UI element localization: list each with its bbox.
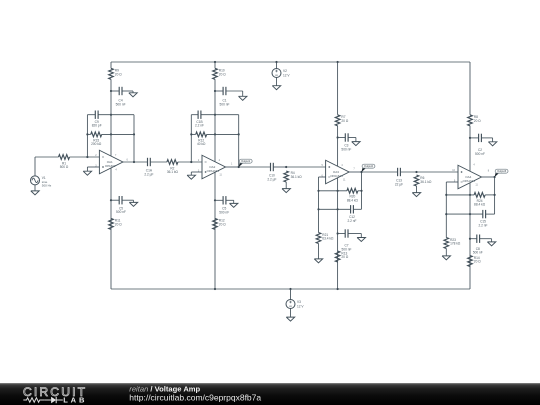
wire: col1 R9 to C4 node [110,79,112,91]
svg-text:36.1 kΩ: 36.1 kΩ [291,175,303,179]
junction: col1/C9 branch [110,114,112,116]
logo resistor zigzag [23,398,44,402]
ground (C2) [488,142,496,146]
resistor R10 [213,68,218,79]
resistor R13 [335,251,340,262]
wire: R22 node to OA4 +in [417,171,459,173]
junction: OA2 output node [238,166,240,168]
wire: C2 stub [470,137,479,139]
junction: fb3 right/R20 [360,190,362,192]
ground (C3) [352,142,360,146]
wire: OA4 -in stub [446,181,458,183]
resistor R9 [109,68,114,79]
wire: col4 down to OA4 V+ [469,138,471,171]
ground (OA2 +in) [187,175,195,179]
svg-text:500 nF: 500 nF [219,210,229,214]
wire: col4 R8 to C2 node [469,126,471,138]
voltage source V1 [31,176,40,185]
wire: fb3 cap branch [319,208,351,210]
wire: C3 ground stem [355,138,357,142]
capacitor C12 [350,205,352,213]
ground (OA1 +in) [83,171,91,175]
wire: C5 stub [111,199,119,201]
capacitor C7 [344,229,346,237]
svg-text:500 nF: 500 nF [116,210,126,214]
junction: col2/C1B branch [214,114,216,116]
wire: col3 R7 to C3 node [337,126,339,138]
resistor R24 [474,193,485,198]
capacitor C3 [344,133,346,141]
junction: col1/C4 [110,90,112,92]
wire: C4 ground stem [132,91,134,93]
wire: C8 stub [470,238,477,240]
capacitor C8 [476,235,478,243]
junction: col3/bottom rail [337,288,339,290]
svg-text:63.4 kΩ: 63.4 kΩ [322,237,334,241]
wire: node to C13 [362,171,398,173]
wire: fb2 res branch right [207,133,239,135]
svg-text:OPA1644: OPA1644 [330,174,343,178]
wire: V2 ground stem [276,78,278,86]
wire: OA2 out to node [226,166,239,168]
svg-text:LAB: LAB [63,395,87,404]
resistor R7 [335,115,340,126]
wire: col1 down to OA1 V+ [110,91,112,156]
wire: V1 to input wire [34,157,36,176]
wire: V3 ground stem [290,309,292,318]
junction: col1/C5 [110,199,112,201]
wire: C10 to R4 node [273,166,286,168]
ground (C5) [129,202,137,206]
op-amp OA2 [202,155,226,179]
resistor R8 [468,115,473,126]
resistor R11 [109,218,114,229]
svg-text:OPA1644: OPA1644 [463,179,476,183]
svg-text:88.4 kΩ: 88.4 kΩ [474,203,486,207]
svg-text:OPA602: OPA602 [105,164,116,168]
svg-text:2.2 nF: 2.2 nF [347,219,356,223]
wire: col3 below OA3 [337,178,339,289]
junction: col4/C2 [469,137,471,139]
junction: OA3 output node [360,171,362,173]
svg-text:20 Ω: 20 Ω [115,73,122,77]
svg-text:200 kΩ: 200 kΩ [91,142,102,146]
junction: rail/col3 [337,61,339,63]
svg-text:500 nF: 500 nF [220,103,230,107]
junction: col3/R20 [337,190,339,192]
svg-text:88.4 kΩ: 88.4 kΩ [347,199,359,203]
junction: fb2 right/res [238,133,240,135]
svg-text:20 Ω: 20 Ω [115,223,122,227]
wire: C5 ground stem [133,200,135,202]
ground (C4) [129,93,137,97]
ground (C1) [239,96,247,100]
svg-text:12 V: 12 V [297,304,304,308]
wire: col1 rail to R9 [110,62,112,68]
svg-text:500 Ω: 500 Ω [60,165,69,169]
wire: rail to V3 [290,289,292,300]
resistor R21 [316,233,321,244]
junction: col2/R12 branch [214,133,216,135]
wire: node to C10 [239,166,271,168]
svg-text:178 kΩ: 178 kΩ [450,242,461,246]
junction: fb4 right/R24 [494,194,496,196]
wire: C4 stub [111,90,119,92]
wire: C7 ground stem [360,234,362,238]
wire: R4 ground stem [285,182,287,189]
wire: OA1 +in to ground [87,166,99,168]
svg-text:20 Ω: 20 Ω [474,260,481,264]
wire: C1 stub [215,90,223,92]
wire: col4 rail to R8 [469,62,471,115]
junction: col2/C1 [214,90,216,92]
junction: col2/bottom rail [214,288,216,290]
wire: col3 down to OA3 V+ [337,138,339,167]
svg-text:20 Ω: 20 Ω [219,73,226,77]
junction: col3/C7 [337,232,339,234]
footer bar background [0,383,540,405]
capacitor C2 [478,134,480,142]
wire: fb2 left vertical [190,115,192,162]
junction: fb4 left/C15 [445,213,447,215]
ground (V3) [286,317,294,321]
wire: fb1 cap branch [87,114,95,116]
wire: R2 to OA2 inverting input [178,161,202,163]
wire: C3 stub [338,137,346,139]
svg-text:20 Ω: 20 Ω [341,119,348,123]
voltage source V3 [286,300,295,309]
capacitor C15 [482,210,484,218]
wire: fb4 res branch [446,194,474,196]
op-amp OA1 [99,150,123,174]
wire: fb2 right vertical [238,115,240,167]
wire: OA3 out to node [349,171,361,173]
wire: C1A to R2 [150,161,167,163]
resistor R23 [444,238,449,249]
svg-text:40 kΩ: 40 kΩ [197,142,206,146]
wire: fb4 right vertical [494,177,496,214]
resistor R1 [59,155,70,160]
wire: fb4 cap branch [446,213,483,215]
svg-text:Output3: Output3 [497,169,507,173]
capacitor C1B [197,111,199,119]
wire: V- bottom rail [111,288,470,290]
capacitor C13 [397,168,399,176]
svg-text:OPA1644: OPA1644 [207,169,220,173]
capacitor C4 [118,87,120,95]
wire: col1 below OA1 [110,168,112,289]
wire: fb2 res branch left [191,133,195,135]
wire: fb3 left vertical [318,191,320,233]
wire: rail to V2 [276,62,278,69]
svg-text:20 Ω: 20 Ω [341,255,348,259]
wire: fb2 cap branch [191,114,198,116]
wire: col2 R10 to C1 node [214,79,216,91]
junction: fb2 left/res [190,133,192,135]
svg-text:Output2: Output2 [364,164,374,168]
svg-text:2.2 nF: 2.2 nF [195,124,204,128]
junction: bottom rail/V3 [289,288,291,290]
wire: R21 ground stem [318,244,320,259]
logo diode [45,399,52,401]
wire: col2 rail to R10 [214,62,216,68]
ground (C7) [357,238,365,242]
svg-text:20 Ω: 20 Ω [219,223,226,227]
svg-text:12 V: 12 V [283,73,290,77]
svg-text:http://circuitlab.com/c9eprpqx: http://circuitlab.com/c9eprpqx8fb7a [129,393,261,403]
resistor R22 [414,175,419,186]
wire: C5B stub [215,199,223,201]
voltage source V2 [272,69,281,78]
svg-text:2.2 µF: 2.2 µF [144,173,153,177]
capacitor C10 [270,163,272,171]
svg-text:2.2 µF: 2.2 µF [267,178,276,182]
wire: fb1 right vertical [133,115,135,162]
junction: rail/col2 [214,61,216,63]
wire: OA4 out to node [482,176,495,178]
junction: fb1/input node [86,156,88,158]
resistor R4 [284,171,289,182]
capacitor C9 [94,111,96,119]
ground (R21) [314,259,322,263]
svg-text:20 Ω: 20 Ω [474,119,481,123]
resistor R12 [196,132,207,137]
wire: C2 ground stem [492,138,494,142]
junction: fb1/output node [133,161,135,163]
wire: C5B ground stem [233,200,235,203]
svg-text:36.1 kΩ: 36.1 kΩ [167,170,179,174]
wire: col3 rail to R7 [337,62,339,115]
svg-text:2.2 nF: 2.2 nF [478,224,487,228]
wire: OA3 -in stub [319,176,326,178]
ground (R22) [412,193,420,197]
svg-text:500 nF: 500 nF [475,152,485,156]
svg-text:Output1: Output1 [241,159,251,163]
capacitor C5 [118,196,120,204]
wire: R4 node to OA3 +in [286,166,325,168]
capacitor C1 [222,87,224,95]
wire: col2 below OA2 [214,172,216,289]
flag Output3 [495,173,499,177]
junction: R4 node [285,166,287,168]
junction: rail/V2 [275,61,277,63]
resistor R15 [91,132,102,137]
ground (C5B) [230,203,238,207]
flag Output2 [362,168,366,172]
wire: fb1 res branch left [87,133,90,135]
wire: OA1 out to C1A [123,161,148,163]
junction: col1/R15 branch [110,133,112,135]
svg-text:820 pF: 820 pF [92,124,102,128]
wire: C8 ground stem [491,239,493,242]
wire: col4 below OA4 [469,183,471,289]
wire: C1 ground stem [242,91,244,96]
wire: V+ top rail [111,61,470,63]
wire: C13 to R22 node [400,171,416,173]
svg-text:22 µF: 22 µF [395,183,403,187]
wire: fb4 left vertical [445,195,447,238]
junction: fb1 right/res [133,133,135,135]
svg-text:500 Hz: 500 Hz [42,184,52,188]
op-amp OA3 [326,160,350,184]
junction: fb4 left/R24 [445,194,447,196]
ground (R23) [442,256,450,260]
wire: col2 down to OA2 V+ [214,91,216,162]
wire: OA2 +in to ground [191,171,202,173]
junction: fb1 left/res [86,133,88,135]
ground (V2) [272,86,280,90]
svg-text:500 nF: 500 nF [116,103,126,107]
junction: fb2/input node [190,161,192,163]
wire: fb3 res branch [319,190,347,192]
wire: R22 ground stem [416,186,418,193]
junction: fb3 left/R20 [317,190,319,192]
svg-text:500 nF: 500 nF [341,147,351,151]
resistor R2 [167,160,178,165]
flag Output1 [239,163,243,167]
op-amp OA4 [458,165,482,189]
junction: col3/C12 [337,208,339,210]
wire: V1 ground stem [34,185,36,191]
junction: col4/C8 [469,238,471,240]
junction: OA4 output node [494,176,496,178]
junction: col4/R24 [469,194,471,196]
svg-text:36.1 kΩ: 36.1 kΩ [420,180,432,184]
ground (C8) [487,242,495,246]
wire: fb1 left vertical [86,115,88,157]
wire: fb1 res branch right [102,133,134,135]
wire: R23 ground stem [445,249,447,256]
capacitor C1A [147,158,149,166]
junction: col3/C3 [337,136,339,138]
capacitor C5B [222,196,224,204]
resistor R16 [213,218,218,229]
svg-text:500 nF: 500 nF [473,251,483,255]
wire: C7 stub [338,233,346,235]
ground (R4) [282,189,290,193]
resistor R20 [347,188,358,193]
resistor R14 [468,256,473,267]
junction: col4/C15 [469,213,471,215]
wire: fb3 right vertical [361,172,363,209]
junction: fb3 left/C12 [317,208,319,210]
junction: R22 node [415,171,417,173]
junction: col2/C5B [214,199,216,201]
ground (V1) [31,191,39,195]
wire: R1 to OA1 inverting input [70,156,100,158]
